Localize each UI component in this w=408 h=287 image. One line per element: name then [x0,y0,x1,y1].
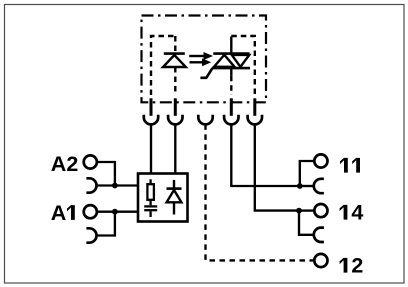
diode V1 [167,180,182,215]
input protection module box [138,174,188,222]
socket contact A1 [86,228,96,242]
wire terminal 14 to node N14 [299,209,314,211]
plug pin 4 [230,98,233,116]
terminal 11 circle [314,154,327,167]
wire socket4 to node N11 [231,124,299,186]
socket contact 3 [198,115,212,125]
node N11 [297,183,303,189]
node N14 [296,208,302,214]
resistor R1 [147,179,154,200]
socket contact 11 [314,179,324,193]
svg-text:2: 2 [351,254,363,278]
wire A2 socket to node NA2 [97,184,115,186]
wire socket2 to module box [174,124,176,173]
wire socket5 to node N14 [255,124,299,210]
socket contact 14 [314,228,324,242]
label 11 [340,158,348,173]
output enclosure (dashed box) [231,36,255,95]
socket contact 5 [248,115,262,125]
input side enclosure (dashed box) [151,36,175,95]
wire terminal 11 to node N11 [300,161,315,186]
wire socket 14 to node N14 [299,211,314,235]
wire A1 socket to node NA1 [97,212,115,236]
terminal 14 circle [314,204,327,217]
socket contact 2 [168,115,182,125]
terminal A1 circle [84,205,97,218]
plug pin 2 [174,98,177,116]
LED D1 [163,54,186,67]
socket contact 4 [224,115,238,125]
socket contact 1 [144,115,158,125]
wire node NA2 to module box [115,184,138,186]
triac gate lead [200,68,212,78]
svg-text:A: A [51,201,67,225]
socket contact A2 [86,178,96,192]
wire node N11 to socket 11 [300,185,314,187]
terminal 12 circle [314,254,327,267]
label 12 [340,258,348,273]
wire A1 circle to module box [97,211,138,213]
plug pin 5 [253,98,256,116]
light coupling arrows [189,52,213,66]
wire socket1 to module box [150,124,152,173]
optocoupler module boundary U1 (dash-dot box) [142,16,267,103]
triac Q1 [212,37,250,76]
plug pin 1 [150,98,153,116]
wire A2 circle to node NA2 [97,162,115,186]
node NA1 [112,209,118,215]
capacitor C1 [144,200,157,217]
label 14 [340,205,348,220]
svg-text:A2: A2 [51,152,79,176]
terminal A2 circle [84,155,97,168]
wire socket3 to terminal 12 (dashed) [206,124,315,260]
node NA2 [112,183,118,189]
svg-text:4: 4 [351,201,363,225]
